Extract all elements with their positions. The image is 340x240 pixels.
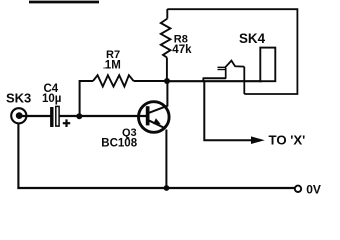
svg-text:10µ: 10µ bbox=[42, 93, 61, 105]
svg-text:1M: 1M bbox=[105, 60, 121, 72]
svg-text:TO 'X': TO 'X' bbox=[269, 133, 306, 148]
svg-text:0V: 0V bbox=[306, 183, 321, 197]
svg-text:BC108: BC108 bbox=[101, 138, 137, 150]
svg-text:47k: 47k bbox=[172, 44, 192, 56]
svg-text:SK4: SK4 bbox=[239, 31, 266, 46]
svg-text:SK3: SK3 bbox=[6, 90, 31, 105]
